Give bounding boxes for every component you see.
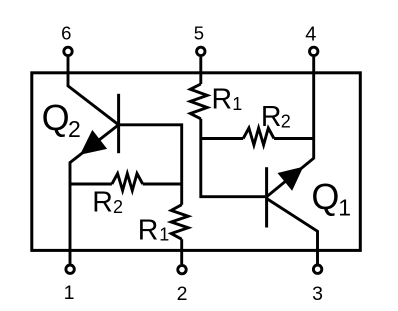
svg-text:1: 1 xyxy=(338,194,351,220)
svg-text:2: 2 xyxy=(68,116,81,142)
svg-text:5: 5 xyxy=(194,22,204,43)
wire Q2 emitter to pin 1 xyxy=(70,125,119,264)
resistor R1 (left half, vertical) xyxy=(171,205,188,240)
svg-text:R: R xyxy=(261,101,282,133)
pin 6 terminal xyxy=(64,47,72,55)
pin 4 terminal xyxy=(310,47,318,55)
package outline xyxy=(32,73,361,251)
svg-text:6: 6 xyxy=(61,22,71,43)
wire R1 to pin 2 xyxy=(180,239,183,264)
svg-text:R: R xyxy=(138,214,159,246)
pin 5 terminal xyxy=(197,47,205,55)
svg-text:2: 2 xyxy=(281,112,291,132)
svg-text:1: 1 xyxy=(159,224,169,244)
resistor R1 (right half, vertical) xyxy=(190,84,207,119)
svg-text:3: 3 xyxy=(312,283,323,305)
wire R2 right lead to node xyxy=(143,183,182,186)
wire R1 bottom to Q1 base xyxy=(201,119,265,197)
Q1 emitter arrow xyxy=(278,167,304,191)
resistor R2 (left half, horizontal) xyxy=(112,174,143,191)
wire pin 4 to Q1 emitter xyxy=(267,57,314,197)
wire R2 right-half left lead xyxy=(201,137,243,140)
resistor R2 (right half, horizontal) xyxy=(243,128,274,145)
transistor Q2 base bar xyxy=(117,94,120,153)
wire pin 5 lead xyxy=(199,57,202,84)
wire R2 to pin 4 line xyxy=(274,137,314,140)
svg-text:2: 2 xyxy=(177,283,188,305)
svg-text:R: R xyxy=(212,84,233,116)
pin 1 terminal xyxy=(66,265,74,273)
wire Q1 collector to pin 3 xyxy=(267,199,318,265)
Q2 emitter arrow xyxy=(80,130,107,155)
svg-text:2: 2 xyxy=(113,197,123,217)
svg-text:4: 4 xyxy=(305,24,316,46)
svg-text:1: 1 xyxy=(232,94,242,114)
transistor Q1 base bar xyxy=(265,167,268,227)
wire R2 left lead xyxy=(70,183,112,186)
svg-text:1: 1 xyxy=(64,282,75,304)
svg-text:R: R xyxy=(92,186,113,218)
svg-text:Q: Q xyxy=(311,176,339,217)
wire Q2 base to R1 xyxy=(119,125,182,205)
pin 3 terminal xyxy=(313,265,321,273)
svg-text:Q: Q xyxy=(42,97,70,138)
pin 2 terminal xyxy=(178,265,186,273)
wire pin 6 to Q2 collector xyxy=(68,57,119,125)
